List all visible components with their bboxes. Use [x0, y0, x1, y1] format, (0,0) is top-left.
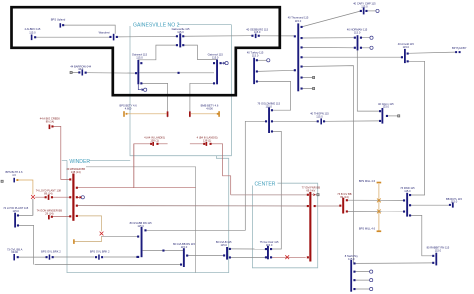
xfmr BPS MILL bottom	[377, 230, 382, 232]
load squares tall bus	[313, 76, 315, 78]
svg-text:89 (14): 89 (14)	[44, 191, 52, 195]
svg-text:115.0: 115.0	[403, 45, 410, 49]
wire X2 branch to bus1	[102, 236, 138, 238]
bus 8 GVL 2	[183, 248, 185, 267]
bus 74 GON WINDER bar	[48, 215, 50, 219]
wire GM FNR to B BB	[315, 205, 341, 207]
dots BP right	[455, 51, 457, 53]
dots GVL BRK 1	[46, 256, 48, 258]
svg-text:115.0: 115.0	[181, 245, 188, 249]
svg-text:CENTER: CENTER	[255, 181, 276, 187]
dots Swift	[353, 262, 355, 264]
wire NORMAN bottom down to Glynn	[357, 50, 380, 111]
bus 40 Arnold 115	[404, 49, 406, 63]
wire B BB to bus407 lower	[347, 210, 404, 212]
wire bus1 to bus2	[143, 250, 184, 252]
svg-text:BP HytchBY: BP HytchBY	[452, 46, 467, 50]
wire GNSV left bus down to BETY xfmr	[141, 83, 168, 117]
bus BETH landing breaker bar right	[206, 142, 208, 146]
dots LOYD PLANT breaker	[45, 196, 47, 198]
svg-text:115.0: 115.0	[29, 30, 36, 34]
dots tall bus right	[301, 26, 303, 28]
svg-text:115.0: 115.0	[295, 19, 302, 23]
wire bus407 right mid to right edge bus	[410, 204, 449, 206]
svg-text:29 (14): 29 (14)	[45, 211, 53, 215]
svg-text:44.0: 44.0	[78, 67, 84, 71]
bus 8 GVL 1	[141, 227, 143, 257]
dots bus3	[223, 254, 225, 256]
wire GOLDMINE-THIGPN-Glynn long line	[272, 120, 380, 122]
wire bus3 to Cwtr lower	[230, 256, 266, 258]
bus 44 BIG CREEK bar	[49, 125, 51, 130]
dot GM FNR right	[314, 205, 316, 207]
dots GNSV right bus	[213, 62, 215, 64]
svg-text:115.0: 115.0	[136, 56, 143, 60]
dot before bus1	[136, 256, 138, 258]
wire BLTH orange drop	[18, 180, 33, 195]
dots Wandervi	[109, 36, 111, 38]
wire tall bus to NORMAN top	[302, 37, 355, 39]
bus 40 CARY CMP 115	[363, 8, 365, 15]
svg-text:4.600: 4.600	[206, 107, 213, 111]
bus Gainesville top 115	[179, 33, 181, 47]
dots bus1	[144, 229, 146, 231]
bus 73 GVL BB A	[13, 254, 15, 260]
svg-text:115.0: 115.0	[354, 31, 361, 35]
wire y187 to inner box	[134, 144, 196, 188]
gainesville teal region box	[130, 25, 231, 156]
bus 40 GESBURG 115	[255, 34, 257, 39]
bus 40 Turkey 115	[253, 58, 255, 84]
svg-text:BPS MILL 4.6: BPS MILL 4.6	[359, 226, 376, 230]
dots WINDER BB right	[76, 187, 78, 189]
wire BARROW to GNSV left bus	[72, 72, 135, 75]
bus BB RUTL 115	[452, 203, 454, 208]
wire X down continuation	[32, 199, 34, 215]
svg-text:4.6: 4.6	[12, 173, 16, 177]
wire GM FNR top load stub	[311, 193, 317, 196]
svg-text:BPS GVL BRK 2: BPS GVL BRK 2	[90, 250, 110, 254]
dots Cwtr	[265, 248, 267, 250]
xfmr BPS BLTH 4.6 lower	[73, 239, 75, 244]
wire GNSV right bus down to BMB xfmr	[190, 83, 214, 117]
bus 39 WINDER BB 138	[72, 174, 74, 221]
dots THIGPN	[317, 120, 319, 122]
svg-text:115.0: 115.0	[404, 189, 411, 193]
dots GESBURG	[251, 35, 253, 37]
dots CARY	[360, 10, 362, 12]
dots GVL BRK 2	[95, 256, 97, 258]
bus 4 ALB 115	[31, 35, 33, 41]
bus BMB red tick right	[189, 111, 191, 116]
bus 77 GM FNR BB 69	[309, 192, 311, 262]
dots tall bus left	[294, 35, 296, 37]
svg-text:115.0: 115.0	[265, 105, 272, 109]
bus 74 LOYD PLANT 115 (navy)	[14, 213, 16, 228]
wire Upland to Wandervi	[63, 25, 115, 34]
bus 40 tall 115	[297, 23, 299, 91]
svg-text:Wandervi: Wandervi	[99, 31, 110, 35]
svg-text:115.0: 115.0	[252, 54, 259, 58]
wire bus407 right bottom to RABBIT	[410, 215, 433, 255]
load arrow GNSV right	[221, 62, 226, 64]
load square left edge stub	[1, 180, 3, 182]
winder teal region box	[62, 156, 229, 273]
wire staircase right GNSV	[183, 45, 216, 59]
wire Cwtr to X3 to GM FNR	[271, 256, 306, 258]
X switch at tan drop	[100, 232, 104, 236]
wire BIG CREEK corner to red bus	[53, 126, 70, 179]
gen circle GNSV right load	[225, 62, 228, 65]
xfmr BPS BETY 4.6	[123, 111, 125, 117]
wire BETY orange left	[126, 113, 167, 115]
xfmr BMB BETY 4.6	[218, 111, 220, 117]
svg-text:115.0: 115.0	[177, 30, 184, 34]
wire long 195 line to GM FNR top	[231, 194, 308, 196]
dot BIG CREEK	[51, 125, 53, 127]
bus 40 NORMAN 115	[357, 35, 359, 50]
bus 73 407 115	[406, 193, 408, 217]
load square Glynn	[398, 115, 400, 117]
dots WINDER BB left	[69, 178, 71, 180]
dot BLTH orange	[16, 179, 18, 181]
wire CARY circle stub	[367, 10, 376, 12]
wire BETH right breaker corner to center	[211, 144, 231, 195]
dot BETY orange	[126, 113, 128, 115]
svg-text:69.00: 69.00	[11, 250, 18, 254]
svg-text:115.0: 115.0	[12, 209, 19, 213]
dots B BB	[339, 205, 341, 207]
bus 8 Swift Pky	[350, 260, 352, 292]
svg-text:115.0: 115.0	[212, 56, 219, 60]
svg-text:115.0: 115.0	[137, 224, 144, 228]
bus 40 Glynn 115	[382, 108, 384, 124]
dots bus2	[186, 255, 188, 257]
bus BETY red tick left	[167, 111, 169, 116]
dots RABBIT	[432, 255, 434, 257]
bus Gainesville left 115	[137, 60, 139, 85]
bus Wandervi	[113, 34, 115, 41]
load square BARROW	[70, 71, 72, 73]
wire staircase left GNSV	[138, 45, 177, 60]
bus 73 B BB 69	[342, 198, 344, 214]
svg-text:WINDER: WINDER	[69, 159, 90, 165]
wire tall bus long line to Arnold	[302, 56, 402, 58]
dots GOLDMINE	[271, 109, 273, 111]
svg-text:BPS MILL 4.6: BPS MILL 4.6	[359, 179, 376, 183]
bus 79 GOLDMINE 115	[268, 107, 270, 133]
wire Arnold corner down to bus407	[408, 61, 425, 195]
wire X to LOYD breaker to red bus	[35, 196, 69, 198]
dots navy LOYD bus	[17, 214, 19, 216]
bus 80 RABBIT 115	[435, 253, 437, 266]
bus BLTH dark bar	[13, 178, 15, 183]
bus THIGPN breaker bar	[320, 118, 322, 124]
dots Glynn	[379, 110, 381, 112]
bus Gainesville right 115	[216, 60, 218, 85]
dots NORMAN	[354, 37, 356, 39]
wire GNSV mid tie	[140, 72, 215, 74]
dots bus407	[403, 199, 405, 201]
X switch at Cwtr-GMFNR	[285, 255, 289, 259]
wire MILL orange riser	[378, 184, 380, 231]
wire red bus tan drop to X2 and BLTH2	[75, 216, 102, 242]
gen circle Turkey	[267, 59, 270, 62]
bus 74 LOYD PLANT breaker bar	[48, 195, 50, 200]
dots BETH breakers	[150, 143, 152, 145]
wire long line to bus2 bottom dot	[35, 264, 181, 266]
svg-text:69 (14): 69 (14)	[340, 195, 348, 199]
svg-text:89 (14): 89 (14)	[46, 119, 54, 123]
wire Turkey circle stub	[257, 59, 266, 61]
X switch at BLTH/LOYD	[31, 195, 35, 199]
dot BB RUTL 115	[449, 204, 451, 206]
svg-text:138 (1): 138 (1)	[203, 138, 211, 142]
svg-text:115.0: 115.0	[383, 105, 390, 109]
wire BETH left breaker to riser up	[158, 143, 204, 145]
dot mid bus1-bus2	[162, 250, 164, 252]
gray inner box wires	[86, 167, 196, 273]
dots GM FNR left	[307, 194, 309, 196]
dots Arnold	[401, 56, 403, 58]
bus 75 Gw Cwtr 115	[267, 246, 269, 259]
wire NORMAN circles stubs	[361, 38, 370, 48]
wire tall bus to big loop corner	[302, 66, 354, 264]
dots GNSV left bus	[140, 62, 142, 64]
wire swift to rabbit long line	[355, 262, 433, 265]
wire long red 206 line WINDER to GM FNR	[77, 205, 308, 207]
wire tall bus load stubs	[302, 78, 313, 89]
wire GNSV top bus to GESBURG to tall bus	[183, 35, 294, 38]
bus GVL BRK bar 1	[49, 255, 51, 260]
dots GNSV top bus	[176, 35, 178, 37]
gen circles Swift	[370, 270, 373, 273]
bus BPS Upland	[60, 23, 62, 27]
svg-text:115.0: 115.0	[316, 114, 323, 118]
center teal region box	[252, 183, 317, 268]
gen circle CARY	[376, 9, 379, 12]
wire tall bus to NORMAN bottom	[302, 46, 355, 48]
wire GOLDMINE left corner down	[145, 121, 266, 230]
X switch orange MILL upper	[377, 199, 381, 203]
dot ALB	[34, 36, 36, 38]
X switch orange MILL lower	[377, 210, 381, 214]
svg-text:138 (1): 138 (1)	[150, 138, 158, 142]
svg-text:69.0 kV: 69.0 kV	[306, 188, 315, 192]
dots BARROW	[78, 71, 80, 73]
wire B BB to bus407 upper	[347, 199, 404, 201]
wire ALB to Wandervi to GNSV top bus	[35, 35, 177, 38]
xfmr BPS MILL top	[377, 182, 382, 184]
load arrow WINDER	[78, 196, 82, 198]
load arrow GNSV left	[138, 84, 143, 91]
dot GNSV mid tie	[178, 72, 180, 74]
svg-text:BPS GVL BRK 2: BPS GVL BRK 2	[41, 250, 61, 254]
wire Glynn load stub	[387, 115, 398, 117]
wire swift load stubs	[355, 272, 370, 289]
bus GVL BRK bar 2	[98, 255, 100, 260]
wire Arnold to BP right bus	[408, 52, 455, 53]
gen circle WINDER load	[81, 196, 84, 199]
dot GON WINDER	[51, 216, 53, 218]
svg-text:115.0: 115.0	[348, 257, 355, 261]
bus 44 BARROW	[82, 70, 84, 76]
svg-text:BPS Upland: BPS Upland	[51, 18, 66, 22]
bus 8 GVL 3	[226, 247, 228, 260]
wire bus3 to Cwtr upper	[230, 248, 266, 250]
wire Turkey zigzag down to GOLDMINE	[257, 81, 290, 110]
wire BMB orange right	[191, 113, 217, 115]
wire navy bus down corner	[18, 225, 33, 264]
wire Turkey to tall bus	[257, 70, 294, 71]
svg-text:4.600: 4.600	[125, 107, 132, 111]
wire GVL long bus line	[19, 256, 138, 258]
svg-text:115.0: 115.0	[254, 30, 261, 34]
svg-text:115.0: 115.0	[435, 249, 442, 253]
dot BMB orange	[217, 113, 219, 115]
wire navy bus up corner to X	[18, 199, 33, 215]
dot GVL BB A	[17, 256, 19, 258]
gen circles NORMAN	[370, 36, 373, 39]
svg-text:138 (14): 138 (14)	[71, 170, 81, 174]
gen circle GNSV left load	[144, 88, 147, 91]
dot Upland	[62, 24, 64, 26]
svg-text:115.0: 115.0	[361, 4, 368, 8]
wire red WINDER to BETH landing riser	[77, 144, 151, 188]
wire GON WINDER stub to red bus	[52, 216, 69, 218]
wire diagonal tall bus to CARY	[302, 11, 361, 27]
wire GOLDMINE down to Cwtr	[271, 131, 281, 249]
bus BETH landing breaker bar left	[152, 142, 154, 146]
svg-text:115.0: 115.0	[266, 243, 273, 247]
svg-text:115.0: 115.0	[220, 243, 227, 247]
dots Turkey	[256, 59, 258, 61]
svg-text:115.0: 115.0	[451, 200, 458, 204]
wire bus2 to bus3	[187, 255, 223, 257]
load square GM FNR top	[317, 194, 319, 196]
